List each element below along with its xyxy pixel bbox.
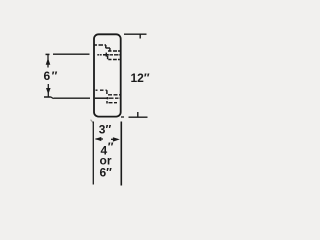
svg-text:12″: 12″ bbox=[131, 71, 150, 85]
svg-text:3″: 3″ bbox=[99, 122, 112, 136]
svg-text:6″: 6″ bbox=[100, 165, 113, 179]
